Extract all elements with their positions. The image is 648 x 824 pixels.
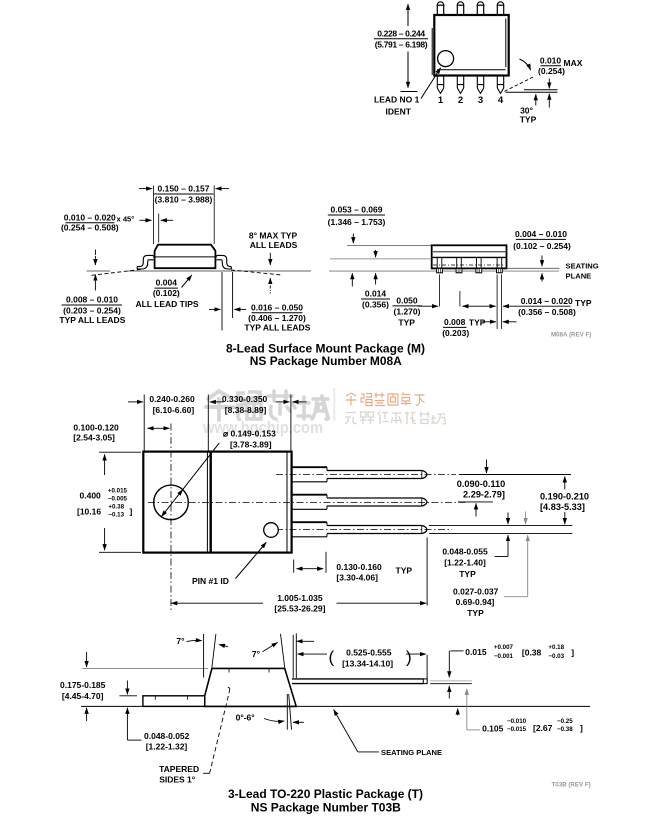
svg-text:0.105: 0.105 (482, 723, 504, 733)
svg-text:0°-6°: 0°-6° (236, 713, 256, 723)
8 deg dashed line left (92, 269, 144, 275)
svg-text:+0.38: +0.38 (108, 504, 124, 511)
svg-text:]: ] (130, 506, 133, 516)
svg-text:(0.102): (0.102) (153, 288, 180, 298)
svg-text:0.053 – 0.069: 0.053 – 0.069 (331, 205, 383, 215)
dim 1.005-1.035 overall length (171, 538, 427, 614)
watermark small line 2 (yuan qi jian zai xian shang cheng) (345, 412, 446, 425)
svg-text:0.027-0.037: 0.027-0.037 (453, 586, 499, 596)
watermark small line 1 (hua qiang ji tuan qi xia) (346, 392, 425, 406)
svg-text:0.008 – 0.010: 0.008 – 0.010 (66, 295, 118, 305)
lead 1 (292, 467, 428, 482)
dim 0.053-0.069 package height (328, 205, 386, 287)
svg-text:0.048-0.052: 0.048-0.052 (144, 731, 190, 741)
lead 2 (292, 495, 428, 510)
dim 0.016-0.050 foot length (209, 272, 311, 333)
dim 0.015 lead thickness (449, 644, 574, 698)
svg-text:[6.10-6.60]: [6.10-6.60] (153, 405, 195, 415)
TO-220 body outline front (143, 452, 291, 553)
dim 0.330-0.350 body width (222, 394, 307, 415)
svg-text:TYP: TYP (469, 318, 486, 328)
svg-text:0.130-0.160: 0.130-0.160 (336, 562, 382, 572)
tab/body boundary lines (206, 452, 208, 553)
pin 1 ident circle (438, 51, 454, 67)
svg-text:[1.22-1.32]: [1.22-1.32] (146, 742, 188, 752)
body top tick marks (228, 668, 230, 672)
dim 0.008-0.010 lead thickness (59, 250, 125, 325)
label LEAD NO 1 IDENT (374, 68, 441, 117)
dim 0.014-0.020 lead width (497, 275, 592, 330)
svg-text:TYP: TYP (575, 298, 592, 308)
pin 1 id circle (264, 523, 279, 538)
svg-text:0.228 – 0.244: 0.228 – 0.244 (377, 28, 425, 38)
lead 3 end view (477, 257, 482, 268)
svg-text:x 45°: x 45° (117, 215, 135, 224)
svg-text:2.29-2.79]: 2.29-2.79] (463, 490, 505, 500)
svg-text:0.400: 0.400 (80, 490, 102, 500)
side view body trapezoid (205, 668, 297, 706)
foot 4 (497, 268, 503, 272)
svg-text:]: ] (571, 647, 574, 657)
svg-text:(5.791 – 6.198): (5.791 – 6.198) (375, 40, 428, 50)
svg-text:SEATING: SEATING (566, 262, 599, 271)
svg-text:0.016 – 0.050: 0.016 – 0.050 (251, 302, 303, 312)
note 0-6 deg lead angle (236, 694, 304, 730)
svg-text:[3.78-3.89]: [3.78-3.89] (230, 440, 272, 450)
svg-text:−0.010: −0.010 (507, 718, 527, 725)
mold parting line (153, 256, 217, 258)
svg-text:(0.203 – 0.254): (0.203 – 0.254) (63, 305, 121, 315)
dim 0.010-0.020 x45 bevel (61, 212, 173, 242)
dim 0.240-0.260 tab width (128, 394, 291, 451)
svg-text:0.090-0.110: 0.090-0.110 (457, 479, 506, 489)
dim 0.014 lead thickness (361, 250, 390, 310)
svg-text:LEAD NO 1: LEAD NO 1 (374, 95, 420, 105)
body top extension line (82, 667, 208, 669)
package body top view (432, 15, 508, 76)
svg-text:TYP ALL LEADS: TYP ALL LEADS (244, 323, 310, 333)
lead 1 centerline (276, 474, 456, 476)
svg-text:−0.03: −0.03 (548, 653, 564, 660)
svg-text:−0.13: −0.13 (108, 511, 124, 518)
svg-text:⌀ 0.149-0.153: ⌀ 0.149-0.153 (223, 429, 276, 439)
svg-text:0.010: 0.010 (540, 56, 562, 66)
svg-text:0.69-0.94]: 0.69-0.94] (456, 597, 495, 607)
hole diameter leader (162, 429, 277, 517)
svg-text:(0.356): (0.356) (362, 300, 389, 310)
dim 0.048-0.055 lead width (442, 513, 508, 579)
dim 0.175-0.185 body height (60, 652, 106, 721)
svg-text:PIN #1 ID: PIN #1 ID (192, 576, 229, 586)
svg-text:0.004: 0.004 (156, 278, 178, 288)
svg-text:ALL LEAD TIPS: ALL LEAD TIPS (135, 299, 198, 309)
svg-text:(3.810 – 3.988): (3.810 – 3.988) (155, 194, 213, 204)
svg-text:[13.34-14.10]: [13.34-14.10] (342, 658, 393, 668)
svg-text:0.014 – 0.020: 0.014 – 0.020 (521, 296, 573, 306)
svg-text:(0.102 – 0.254): (0.102 – 0.254) (513, 241, 571, 251)
svg-text:[0.38: [0.38 (522, 647, 542, 657)
seating plane line (81, 705, 590, 707)
inner line near right edge (286, 452, 288, 553)
svg-text:0.010 – 0.020: 0.010 – 0.020 (64, 212, 116, 222)
dim 0.048-0.052 tab thickness (119, 681, 189, 752)
tab tick marks (154, 696, 156, 700)
pin 1 id leader (192, 542, 266, 586)
foot 3 (476, 268, 482, 272)
watermark big char 2 (qiang) (238, 392, 261, 419)
svg-text:TYP: TYP (398, 317, 415, 327)
svg-text:−0.25: −0.25 (557, 718, 573, 725)
svg-text:−0.015: −0.015 (507, 726, 527, 733)
svg-text:[2.54-3.05]: [2.54-3.05] (73, 433, 115, 443)
svg-text:(0.356 – 0.508): (0.356 – 0.508) (518, 307, 576, 317)
dim 0.400 body height (77, 452, 141, 552)
dim 0.130-0.160 shoulder length (294, 552, 413, 583)
lead 1 end view (437, 257, 442, 268)
svg-text:PLANE: PLANE (566, 271, 592, 280)
lead 2 end view (457, 257, 462, 268)
dim 0.008 typ (442, 317, 516, 338)
svg-text:(1.270): (1.270) (394, 307, 421, 317)
dim 0.027-0.037 lead thickness (453, 512, 528, 618)
svg-text:−0.005: −0.005 (108, 495, 128, 502)
pin 4 bottom lead (497, 76, 503, 94)
svg-text:(: ( (329, 648, 335, 667)
right gull-wing lead (216, 255, 231, 269)
svg-text:IDENT: IDENT (386, 107, 412, 117)
seating plane line (329, 270, 559, 272)
svg-text:+0.015: +0.015 (108, 487, 128, 494)
svg-text:+0.18: +0.18 (548, 644, 564, 651)
svg-text:TYP: TYP (459, 569, 476, 579)
svg-text:TYP: TYP (520, 115, 537, 125)
dim 0.525-0.555 lead length (296, 633, 427, 678)
foot 2 (456, 268, 462, 272)
lead top reference line (330, 258, 431, 260)
svg-text:7°: 7° (176, 636, 185, 646)
svg-text:0.150 – 0.157: 0.150 – 0.157 (158, 184, 210, 194)
dim 0.105 lead height (458, 689, 583, 734)
svg-text:0.004 – 0.010: 0.004 – 0.010 (515, 229, 567, 239)
watermark big char 4 (cheng) (298, 396, 328, 419)
svg-text:(0.254): (0.254) (538, 66, 565, 76)
svg-text:(0.203): (0.203) (442, 328, 469, 338)
svg-text:[2.67: [2.67 (533, 723, 553, 733)
svg-text:): ) (406, 648, 412, 667)
svg-text:[25.53-26.29]: [25.53-26.29] (274, 604, 325, 614)
watermark big char 1 (hua) (206, 391, 234, 420)
svg-text:0.330-0.350: 0.330-0.350 (222, 394, 268, 404)
svg-text:0.008: 0.008 (444, 317, 466, 327)
pin 3 bottom lead (477, 76, 483, 94)
pin 6 top lead (457, 2, 465, 15)
svg-text:0.014: 0.014 (365, 289, 387, 299)
svg-text:4: 4 (498, 95, 504, 106)
svg-text:0.525-0.555: 0.525-0.555 (346, 647, 392, 657)
lead 4 end view (497, 257, 502, 268)
SOIC body side view (155, 245, 216, 269)
dim 0.228-0.244 body width (374, 4, 428, 92)
lead bottom extension (430, 683, 472, 685)
svg-text:]: ] (580, 723, 583, 733)
pin 7 top lead (477, 2, 485, 15)
svg-text:0.190-0.210: 0.190-0.210 (540, 491, 589, 501)
svg-text:3: 3 (478, 95, 483, 106)
svg-text:[10.16: [10.16 (77, 506, 101, 516)
svg-text:TYP: TYP (396, 566, 413, 576)
svg-text:8° MAX TYP: 8° MAX TYP (249, 230, 298, 240)
dim 0.050 lead pitch (393, 275, 496, 328)
svg-text:T03B (REV F): T03B (REV F) (552, 782, 591, 789)
svg-text:1: 1 (438, 95, 444, 106)
dim 0.190-0.210 outer lead span (429, 477, 589, 534)
dim 0.004 all lead tips (135, 275, 198, 309)
svg-text:SEATING PLANE: SEATING PLANE (381, 748, 442, 757)
svg-text:0.100-0.120: 0.100-0.120 (73, 422, 119, 432)
svg-text:0.048-0.055: 0.048-0.055 (442, 546, 488, 556)
label SEATING PLANE leader (334, 710, 442, 757)
dim 0.150-0.157 (139, 184, 229, 244)
seating baseline segments (87, 270, 111, 272)
svg-text:TAPERED: TAPERED (159, 764, 199, 774)
svg-text:1.005-1.035: 1.005-1.035 (277, 593, 323, 603)
pin 2 bottom lead (457, 76, 463, 94)
8 deg dashed line right (231, 270, 282, 275)
svg-text:2: 2 (458, 95, 463, 106)
svg-text:0.240-0.260: 0.240-0.260 (149, 394, 195, 404)
svg-text:[3.30-4.06]: [3.30-4.06] (336, 573, 378, 583)
pin 5 top lead (437, 2, 445, 15)
dim 0.010 max standoff (top right) (505, 56, 583, 125)
body horizontal centerline (148, 501, 468, 503)
pin 8 top lead (497, 2, 505, 15)
note TAPERED SIDES 1 deg (159, 687, 230, 784)
svg-text:(0.254 – 0.508): (0.254 – 0.508) (61, 222, 119, 232)
svg-text:ALL LEADS: ALL LEADS (250, 240, 298, 250)
pin numbers 1 2 3 4 (438, 95, 504, 106)
svg-text:(0.406 – 1.270): (0.406 – 1.270) (248, 313, 306, 323)
svg-text:NS Package Number T03B: NS Package Number T03B (251, 801, 401, 815)
lead 3 (292, 522, 428, 537)
svg-text:TYP ALL LEADS: TYP ALL LEADS (59, 315, 125, 325)
svg-text:0.175-0.185: 0.175-0.185 (60, 680, 106, 690)
svg-text:−0.38: −0.38 (557, 726, 573, 733)
svg-text:SIDES 1°: SIDES 1° (159, 774, 196, 784)
lead 3 centerline (276, 529, 452, 531)
dim 0.100-0.120 hole to edge (73, 422, 169, 442)
lead top extension (gray) (430, 680, 472, 682)
left gull-wing lead (137, 255, 153, 269)
top extension line (347, 244, 432, 246)
svg-text:[1.22-1.40]: [1.22-1.40] (444, 558, 486, 568)
pin 1 bottom lead (437, 76, 443, 94)
svg-text:(1.346 – 1.753): (1.346 – 1.753) (328, 217, 386, 227)
dim 0.090-0.110 lead pitch (457, 460, 571, 517)
svg-text:0.050: 0.050 (396, 296, 418, 306)
note 8 deg max typ all leads (249, 230, 298, 293)
svg-text:3-Lead TO-220 Plastic Package: 3-Lead TO-220 Plastic Package (T) (228, 787, 423, 801)
svg-text:[4.83-5.33]: [4.83-5.33] (540, 502, 585, 512)
svg-text:+0.007: +0.007 (494, 644, 514, 651)
svg-text:TYP: TYP (467, 608, 484, 618)
svg-text:7°: 7° (252, 649, 261, 659)
dim 0.004-0.010 standoff (507, 229, 571, 281)
svg-text:NS Package Number M08A: NS Package Number M08A (250, 354, 402, 368)
svg-text:[8.38-8.89]: [8.38-8.89] (225, 405, 267, 415)
svg-text:0.015: 0.015 (465, 647, 487, 657)
7 deg right angle (252, 634, 314, 678)
svg-text:[4.45-4.70]: [4.45-4.70] (62, 691, 104, 701)
svg-text:−0.001: −0.001 (494, 653, 514, 660)
end view body (432, 245, 507, 268)
watermark big char 3 (xin) (268, 391, 295, 419)
7 deg left angle (176, 634, 228, 678)
hole vertical centerline (170, 424, 172, 611)
svg-text:M08A (REV F): M08A (REV F) (551, 331, 591, 338)
lead side view (292, 679, 427, 684)
watermark divider (333, 388, 335, 421)
svg-text:MAX: MAX (564, 58, 583, 68)
tab side view (143, 696, 205, 707)
mounting hole (154, 485, 189, 520)
foot 1 (437, 268, 443, 272)
